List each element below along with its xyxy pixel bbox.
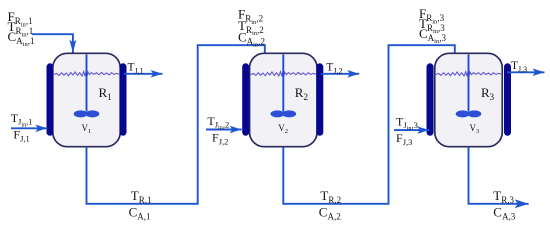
coolant inlet arrow into R2 — [206, 129, 242, 131]
coolant outlet arrow T_J,2 — [321, 73, 359, 75]
impeller R2 — [271, 110, 297, 117]
stirrer shaft R2 — [282, 54, 284, 111]
coolant outlet arrow T_J,3 — [507, 71, 545, 73]
liquid surface wave R2 — [251, 72, 316, 77]
stream reactor 3 product outlet — [469, 147, 529, 204]
jacket bar left R1 — [47, 63, 54, 136]
jacket bar left R3 — [427, 63, 434, 136]
stirrer shaft R3 — [468, 54, 470, 111]
reactor R3 vessel — [435, 53, 503, 146]
impeller R3 — [456, 110, 482, 117]
impeller R1 — [74, 110, 100, 117]
stirrer shaft R1 — [86, 54, 88, 111]
stream reactor 2 outlet to reactor 3 feed — [283, 45, 455, 204]
jacket bar left R2 — [242, 63, 249, 136]
jacket bar right R2 — [316, 63, 323, 136]
reactor R1 vessel — [53, 53, 121, 146]
jacket bar right R1 — [120, 63, 127, 136]
coolant outlet arrow T_J,1 — [124, 73, 163, 75]
coolant inlet arrow into R3 — [394, 129, 429, 131]
reactor R2 vessel — [250, 53, 317, 146]
stream reactor 1 outlet to reactor 2 feed — [87, 45, 265, 204]
coolant inlet arrow into R1 — [11, 127, 47, 129]
liquid surface wave R3 — [436, 72, 501, 77]
liquid surface wave R1 — [54, 72, 119, 77]
jacket bar right R3 — [504, 63, 511, 136]
stream fresh feed into reactor 1 — [32, 34, 73, 52]
